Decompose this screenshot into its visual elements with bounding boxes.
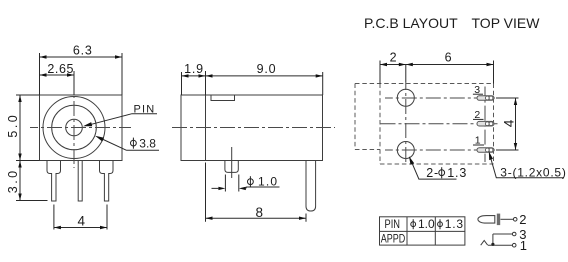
pin table text phi1.3 — [438, 217, 464, 231]
dim 2.65 text — [47, 62, 74, 76]
dim 5.0 extension lines — [16, 95, 40, 161]
dim phi1.0 text — [248, 175, 279, 189]
schematic text 1 — [520, 238, 527, 253]
dim 2/6 extension lines — [380, 61, 494, 84]
pcb slot 1 label — [473, 135, 484, 147]
side center pin thin line — [231, 147, 233, 178]
dim 8 extension lines — [206, 163, 307, 222]
title TOP VIEW — [472, 15, 541, 31]
pcb slot 2 — [477, 121, 494, 126]
pcb outline top edge — [355, 83, 494, 85]
svg-text:3-(1.2x0.5): 3-(1.2x0.5) — [500, 166, 566, 180]
label PIN leader — [83, 114, 157, 127]
side notch — [211, 95, 235, 101]
label phi3.8 text — [131, 136, 157, 150]
pcb hole bottom (phi 1.3) — [397, 142, 414, 159]
front crosshair horizontal centerline — [30, 127, 131, 129]
pcb row2 centerline — [381, 123, 501, 125]
front view body — [40, 95, 123, 161]
svg-text:9.0: 9.0 — [257, 62, 277, 76]
svg-text:1.3: 1.3 — [445, 217, 464, 231]
svg-text:1.9: 1.9 — [184, 62, 204, 76]
front left pin — [47, 161, 61, 202]
dim 5.0 line and arrows — [18, 95, 21, 161]
dim 1.9 text — [184, 62, 204, 76]
dim 3.0 bottom extension line — [16, 200, 48, 202]
svg-text:4: 4 — [502, 119, 517, 127]
schematic terminal circle 1 — [512, 243, 516, 247]
title P.C.B LAYOUT — [364, 15, 458, 31]
dim 3.0 text (rotated) — [6, 168, 20, 193]
pcb hole top (phi 1.3) — [397, 89, 414, 106]
side centerline — [172, 127, 335, 129]
front middle pin — [78, 161, 82, 202]
dim 8 line and arrows — [206, 217, 307, 220]
side right pin — [306, 161, 316, 212]
label 3-(1.2x0.5) text — [500, 166, 566, 180]
svg-text:2: 2 — [519, 212, 526, 227]
dim 6.3 text — [73, 44, 93, 58]
front inner circle (center pin hole) — [66, 119, 83, 136]
dim 4 text — [77, 213, 85, 228]
svg-text:6: 6 — [445, 51, 453, 65]
pcb tab bottom edge — [355, 149, 380, 151]
pcb tab left edge — [354, 84, 356, 150]
schematic wire pin2 — [501, 218, 514, 220]
dim phi1.0 arrows — [212, 187, 280, 190]
dim 2/6 line and arrows — [380, 63, 494, 66]
dim 4 (pcb) extension lines — [496, 98, 519, 150]
pin table text phi1.0 — [411, 217, 435, 231]
dim 4 (pcb) line and arrows — [514, 98, 517, 150]
schematic spring contact — [481, 241, 488, 246]
schematic switch vertical wire — [492, 234, 494, 245]
svg-text:APPD: APPD — [381, 231, 406, 245]
svg-text:8: 8 — [255, 205, 263, 220]
pcb holes vertical centerline — [405, 65, 407, 164]
pcb outline bottom edge — [380, 163, 494, 165]
dim 2.65 extension line — [73, 71, 75, 95]
schematic terminal circle 2 — [513, 218, 517, 222]
svg-text:1.0: 1.0 — [418, 217, 435, 231]
schematic bullet bar — [497, 214, 500, 226]
dim 4 (pcb) text (rotated) — [502, 119, 517, 127]
svg-text:4: 4 — [77, 213, 85, 228]
dim 2.65 line and arrows — [40, 73, 75, 76]
front middle circle (phi 3.8 barrel) — [52, 105, 97, 150]
svg-text:PIN: PIN — [134, 104, 156, 116]
pcb row1 centerline — [385, 149, 500, 151]
pcb slot 1 — [477, 148, 494, 153]
label 2-phi1.3 leader — [409, 156, 457, 179]
dim 5.0 text (rotated) — [6, 113, 20, 138]
svg-text:3.0: 3.0 — [6, 168, 20, 193]
schematic text 3 — [519, 227, 526, 242]
pin table text APPD — [381, 231, 406, 245]
dim phi1.0 extension lines — [225, 175, 238, 192]
svg-text:1: 1 — [520, 238, 527, 253]
dim 9.0 text — [257, 62, 277, 76]
pcb slot 3 label — [473, 84, 483, 96]
front outer circle — [43, 97, 105, 159]
dim 8 text — [255, 205, 263, 220]
svg-text:2-: 2- — [426, 166, 439, 180]
schematic terminal circle 3 — [512, 232, 516, 236]
schematic text 2 — [519, 212, 526, 227]
svg-text:TOP VIEW: TOP VIEW — [472, 15, 541, 31]
svg-text:1.3: 1.3 — [447, 166, 467, 180]
pin table frame — [380, 217, 465, 245]
label phi3.8 leader — [95, 136, 159, 151]
svg-text:5.0: 5.0 — [6, 113, 20, 138]
dim 4 extension lines — [54, 205, 107, 230]
side internal vertical line — [205, 95, 207, 161]
pin table text PIN — [385, 217, 401, 231]
svg-text:2: 2 — [390, 51, 398, 65]
svg-text:3.8: 3.8 — [139, 136, 156, 150]
dim 1.9 / 9.0 line and arrows — [182, 74, 323, 77]
pcb outline right edge — [493, 84, 495, 165]
dim 6.3 line and arrows — [40, 55, 123, 58]
dim 6 text — [445, 51, 453, 65]
dim 4 line and arrows — [54, 226, 107, 229]
schematic center pin bullet — [478, 216, 495, 224]
pcb row3 centerline — [385, 97, 500, 99]
front crosshair vertical centerline — [73, 96, 75, 168]
svg-text:2.65: 2.65 — [47, 62, 74, 76]
label PIN text — [134, 104, 156, 116]
side view body — [181, 95, 323, 161]
schematic wire pin1 — [488, 244, 512, 246]
svg-text:P.C.B LAYOUT: P.C.B LAYOUT — [364, 15, 458, 31]
front right pin — [100, 161, 114, 202]
pcb internal vertical edge — [379, 84, 381, 165]
label 2-phi1.3 text — [426, 166, 467, 180]
svg-text:1.0: 1.0 — [258, 175, 278, 189]
schematic junction dot — [491, 243, 494, 246]
label 3-(1.2x0.5) leader — [489, 151, 564, 178]
svg-text:PIN: PIN — [385, 217, 401, 231]
pcb slot 2 label — [473, 109, 484, 121]
side pin stub (phi 1.0) — [225, 161, 238, 173]
svg-text:6.3: 6.3 — [73, 44, 93, 58]
dim 2 text — [390, 51, 398, 65]
pcb slot 3 — [477, 96, 494, 101]
dim 1.9 and 9.0 extension lines — [182, 71, 323, 95]
schematic wire pin3 — [493, 233, 512, 235]
dim 6.3 extension lines — [40, 53, 123, 95]
pcb slot column centerline — [484, 87, 486, 163]
dim 3.0 line and arrows — [18, 161, 21, 201]
